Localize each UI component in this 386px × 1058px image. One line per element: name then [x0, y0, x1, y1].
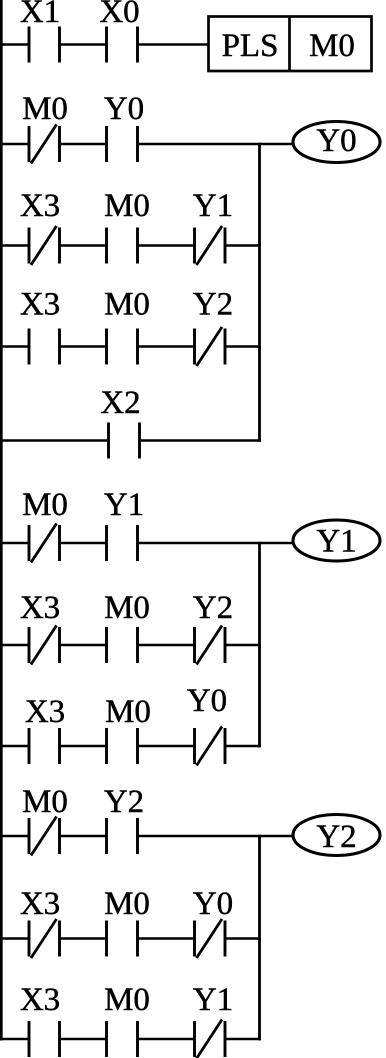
svg-text:X1: X1 — [20, 0, 60, 30]
wire rung1 X1 to X0 — [60, 43, 107, 46]
contact Y2 (NO) rung9 — [107, 818, 138, 854]
wire rung5 rail to X2 — [0, 439, 109, 442]
coil Y0 — [293, 122, 380, 163]
wire rung7 segment 2 — [60, 644, 107, 647]
contact M0 (NO) rung10 — [107, 921, 138, 957]
contact M0 (NC) rung2 — [29, 125, 60, 164]
svg-text:X3: X3 — [20, 982, 60, 1018]
coil Y1 — [293, 520, 380, 561]
svg-text:Y1: Y1 — [193, 982, 233, 1018]
wire rung3 segment 2 — [60, 244, 107, 247]
wire rung10 segment 1 — [0, 937, 29, 940]
svg-text:Y2: Y2 — [193, 287, 233, 323]
wire rung4 segment 3 — [138, 345, 195, 348]
contact X2 (NO) — [109, 423, 140, 459]
contact M0 (NO) rung11 — [107, 1021, 138, 1057]
svg-text:M0: M0 — [104, 188, 150, 224]
wire rung6 rail to M0 — [0, 542, 29, 545]
wire rung11 segment 3 — [138, 1038, 195, 1041]
svg-text:M0: M0 — [104, 886, 150, 922]
branch wire vertical rungs 2-5 — [258, 143, 261, 442]
wire rung1 X0 to PLS box — [138, 43, 210, 46]
branch wire vertical rungs 6-8 — [258, 542, 261, 748]
svg-text:X0: X0 — [99, 0, 139, 30]
contact Y2 (NC) rung7 — [195, 626, 226, 665]
svg-text:X3: X3 — [20, 590, 60, 626]
wire rung10 segment 2 — [60, 937, 107, 940]
svg-text:Y2: Y2 — [316, 819, 356, 855]
contact X3 (NC) rung3 — [29, 226, 60, 265]
wire rung7 segment 3 — [138, 644, 195, 647]
wire rung6 M0 to Y1 — [60, 542, 107, 545]
svg-text:Y0: Y0 — [187, 683, 227, 719]
wire rung2 Y0 to coil Y0 — [138, 143, 294, 146]
svg-text:X3: X3 — [20, 886, 60, 922]
wire rung10 to branch — [225, 937, 261, 940]
branch wire vertical rungs 9-11 — [258, 835, 261, 1041]
wire rung9 Y2 to coil Y2 — [138, 835, 294, 838]
wire rung6 Y1 to coil Y1 — [138, 542, 294, 545]
svg-text:M0: M0 — [104, 287, 150, 323]
wire rung8 segment 2 — [60, 745, 107, 748]
svg-text:X3: X3 — [20, 188, 60, 224]
wire rung10 segment 3 — [138, 937, 195, 940]
wire rung4 segment 1 — [0, 345, 29, 348]
contact X3 (NC) rung7 — [29, 626, 60, 665]
svg-text:M0: M0 — [22, 784, 68, 820]
contact Y1 (NO) rung6 — [107, 525, 138, 561]
svg-text:M0: M0 — [104, 982, 150, 1018]
svg-text:M0: M0 — [104, 590, 150, 626]
wire rung11 to branch — [225, 1038, 261, 1041]
contact X3 (NC) rung10 — [29, 919, 60, 958]
svg-text:X3: X3 — [25, 694, 65, 730]
contact Y0 (NO) rung2 — [107, 126, 138, 162]
wire rung8 segment 3 — [138, 745, 195, 748]
contact M0 (NO) rung4 — [107, 329, 138, 365]
contact X3 (NO) rung4 — [29, 329, 60, 365]
svg-text:PLS: PLS — [222, 28, 279, 64]
coil Y2 — [293, 815, 380, 856]
svg-text:Y2: Y2 — [193, 590, 233, 626]
svg-text:Y0: Y0 — [104, 91, 144, 127]
contact M0 (NC) rung6 — [29, 524, 60, 563]
wire rung5 X2 to branch — [140, 439, 261, 442]
wire rung3 segment 1 — [0, 244, 29, 247]
contact Y0 (NC) rung10 — [195, 919, 226, 958]
contact M0 (NC) rung9 — [29, 817, 60, 856]
contact M0 (NO) rung7 — [107, 627, 138, 663]
svg-text:Y1: Y1 — [104, 487, 144, 523]
svg-text:M0: M0 — [105, 694, 151, 730]
svg-text:M0: M0 — [22, 487, 68, 523]
contact M0 (NO) rung3 — [107, 228, 138, 264]
svg-text:Y2: Y2 — [104, 784, 144, 820]
contact Y1 (NC) rung11 — [195, 1020, 226, 1058]
svg-text:X3: X3 — [20, 287, 60, 323]
wire rung11 segment 1 — [0, 1038, 29, 1041]
wire rung9 M0 to Y2 — [60, 835, 107, 838]
wire rung8 segment 1 — [0, 745, 29, 748]
PLS instruction box — [209, 17, 372, 72]
wire rung4 segment 2 — [60, 345, 107, 348]
wire rung3 segment 3 — [138, 244, 195, 247]
wire rung7 to branch — [225, 644, 261, 647]
wire rung4 to branch — [225, 345, 261, 348]
contact Y0 (NC) rung8 — [195, 727, 226, 766]
svg-text:Y0: Y0 — [193, 886, 233, 922]
wire rung2 M0 to Y0 — [60, 143, 107, 146]
svg-text:M0: M0 — [309, 28, 355, 64]
contact X1 (NO) — [29, 27, 60, 63]
wire rung7 segment 1 — [0, 644, 29, 647]
svg-text:Y1: Y1 — [193, 188, 233, 224]
contact X0 (NO) — [107, 27, 138, 63]
contact Y2 (NC) rung4 — [195, 327, 226, 366]
wire rung11 segment 2 — [60, 1038, 107, 1041]
svg-text:Y1: Y1 — [316, 524, 356, 560]
svg-text:X2: X2 — [100, 385, 140, 421]
svg-text:Y0: Y0 — [316, 123, 356, 159]
left power rail — [0, 0, 3, 1041]
contact X3 (NO) rung8 — [29, 728, 60, 764]
wire rung1 rail to X1 — [0, 43, 29, 46]
wire rung8 to branch — [225, 745, 261, 748]
wire rung2 rail to M0 — [0, 143, 29, 146]
wire rung9 rail to M0 — [0, 835, 29, 838]
contact Y1 (NC) rung3 — [195, 226, 226, 265]
wire rung3 to branch — [225, 244, 261, 247]
contact X3 (NO) rung11 — [29, 1021, 60, 1057]
svg-text:M0: M0 — [22, 91, 68, 127]
contact M0 (NO) rung8 — [107, 728, 138, 764]
